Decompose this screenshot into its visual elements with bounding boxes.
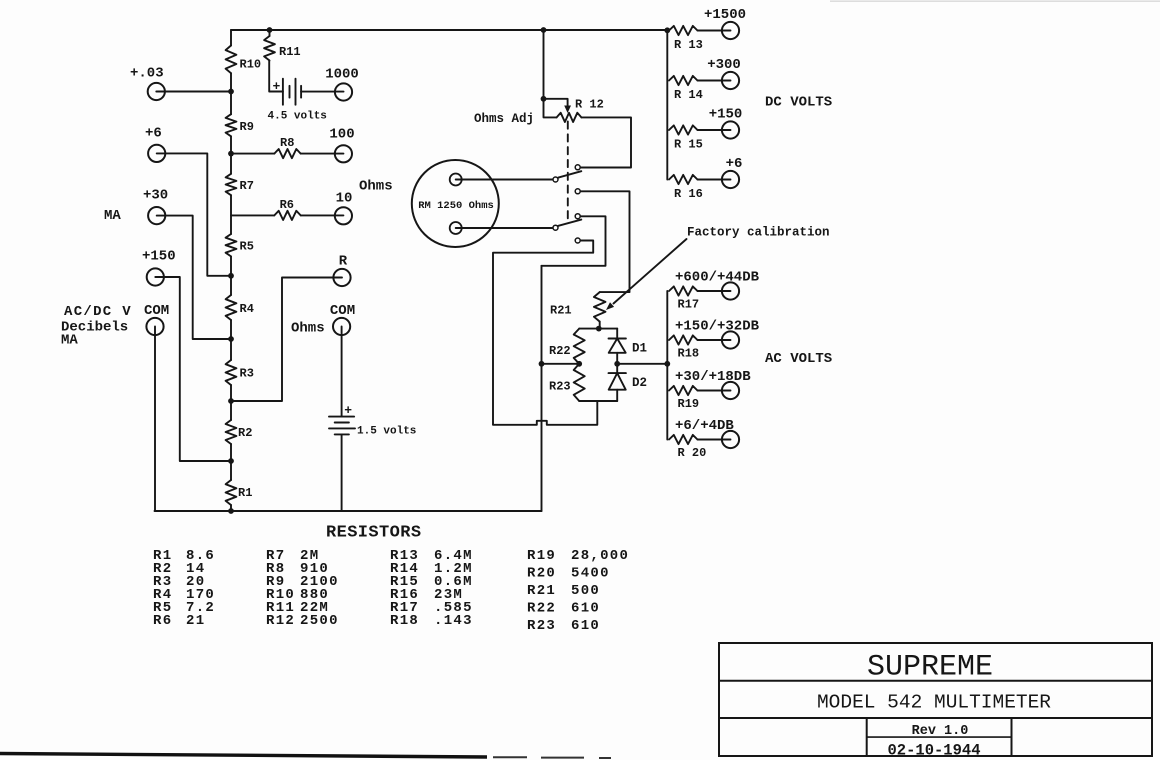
svg-text:R23: R23 — [549, 380, 571, 394]
wire battery to 1000 terminal — [301, 91, 343, 93]
svg-text:D1: D1 — [632, 342, 647, 356]
wire top of bridge — [579, 328, 617, 330]
switch pole 1 — [553, 177, 558, 182]
diode D1 — [616, 329, 618, 339]
wire R8 to 100 terminal — [301, 153, 344, 155]
wire R18 to terminal — [698, 339, 731, 341]
svg-text:Ohms: Ohms — [359, 179, 393, 195]
svg-text:MA: MA — [104, 208, 121, 224]
terminal +300 DC — [722, 72, 739, 89]
terminal +30/+18DB — [722, 382, 739, 399]
wire R11 top — [269, 30, 271, 36]
resistor R3 — [226, 360, 237, 385]
wire hop over riser — [493, 401, 597, 425]
wire AC bus — [666, 291, 668, 440]
terminal 10 — [335, 207, 352, 224]
terminal COM — [146, 318, 163, 335]
wire chain seg9 — [230, 505, 232, 511]
switch contact 3 — [575, 214, 580, 219]
svg-text:Factory calibration: Factory calibration — [687, 226, 830, 240]
terminal 1000 — [335, 83, 352, 100]
svg-text:R 20: R 20 — [678, 446, 707, 460]
terminal 100 — [335, 145, 352, 162]
resistor R13 — [669, 26, 698, 35]
wire chain seg3 — [230, 136, 232, 174]
svg-text:AC VOLTS: AC VOLTS — [765, 351, 832, 367]
junction DC bus top — [664, 27, 670, 33]
svg-text:+600/+44DB: +600/+44DB — [675, 270, 760, 286]
wire chain seg6 — [230, 320, 232, 360]
wire R 16 to terminal — [698, 179, 731, 181]
meter RM 1250 Ohms — [412, 160, 499, 247]
svg-text:1000: 1000 — [325, 67, 359, 83]
wire top bus — [231, 29, 667, 31]
potentiometer R12 — [557, 113, 582, 122]
wire DC bus — [666, 30, 668, 180]
svg-text:R: R — [339, 254, 348, 270]
resistor R17 — [669, 286, 698, 295]
svg-text:R 16: R 16 — [674, 187, 703, 201]
switch contact 2 — [575, 189, 580, 194]
svg-text:610: 610 — [571, 600, 600, 616]
diode D2 — [616, 364, 618, 374]
junction AC bus — [664, 361, 670, 367]
svg-text:R22: R22 — [549, 344, 571, 358]
svg-text:+6: +6 — [726, 156, 743, 172]
svg-text:+30/+18DB: +30/+18DB — [675, 369, 751, 385]
wire contact 4 down — [493, 241, 593, 425]
svg-text:R2: R2 — [238, 426, 252, 440]
terminal +6 DC — [722, 171, 739, 188]
svg-text:R 14: R 14 — [674, 88, 703, 102]
wire +150 to chain — [155, 277, 231, 461]
svg-text:500: 500 — [571, 583, 600, 599]
svg-text:5400: 5400 — [571, 565, 610, 581]
svg-text:R4: R4 — [240, 302, 254, 316]
terminal +150/+32DB — [722, 331, 739, 348]
svg-text:+30: +30 — [143, 188, 168, 204]
svg-text:R1: R1 — [238, 486, 252, 500]
svg-text:RESISTORS: RESISTORS — [326, 524, 421, 543]
terminal +600/+44DB — [722, 282, 739, 299]
junction R22 R23 — [576, 361, 582, 367]
wire meter + to switch pole 1 — [456, 179, 553, 181]
terminal COM ohms — [333, 318, 350, 335]
wire COM to bottom bus — [154, 327, 156, 512]
svg-text:R17: R17 — [678, 298, 700, 312]
svg-text:610: 610 — [571, 618, 600, 634]
svg-text:+300: +300 — [707, 57, 741, 73]
switch contact 1 — [575, 165, 580, 170]
svg-text:MA: MA — [61, 333, 78, 349]
svg-text:R20: R20 — [527, 565, 556, 581]
svg-text:28,000: 28,000 — [571, 548, 629, 564]
svg-text:100: 100 — [329, 127, 354, 143]
wire R21 bottom — [599, 322, 601, 329]
battery BT1 4.5 volts — [282, 79, 284, 105]
svg-text:R9: R9 — [240, 120, 254, 134]
svg-text:+.03: +.03 — [130, 66, 164, 82]
wire R 14 to terminal — [698, 80, 731, 82]
svg-text:R11: R11 — [279, 45, 301, 59]
wire R 15 to terminal — [698, 129, 731, 131]
svg-text:R3: R3 — [240, 367, 254, 381]
svg-text:02-10-1944: 02-10-1944 — [887, 742, 980, 760]
svg-text:D2: D2 — [632, 376, 647, 390]
title block — [719, 643, 1152, 756]
wire R12 to switch contact 1 — [581, 117, 631, 167]
svg-text:R6: R6 — [280, 198, 294, 212]
scan edge bottom bar — [0, 754, 487, 758]
junction +150 wire — [228, 458, 234, 464]
wire bottom bus — [155, 510, 542, 512]
resistor R8 — [274, 149, 300, 158]
svg-text:10: 10 — [336, 191, 353, 207]
svg-text:21: 21 — [186, 613, 205, 629]
resistor R22 — [574, 329, 585, 364]
svg-text:R8: R8 — [280, 136, 294, 150]
wire battery to bottom bus — [341, 434, 343, 511]
svg-text:R21: R21 — [550, 304, 572, 318]
junction ohms adj top — [541, 27, 547, 33]
battery BT2 1.5 volts — [329, 416, 354, 418]
resistor R18 — [669, 335, 698, 344]
wire R11 to battery — [269, 61, 283, 92]
svg-text:R6: R6 — [153, 613, 172, 629]
svg-text:AC/DC V: AC/DC V — [64, 304, 132, 320]
terminal +.03 — [148, 83, 165, 100]
svg-text:R5: R5 — [240, 240, 254, 254]
wire R19 to terminal — [698, 390, 731, 392]
svg-text:R21: R21 — [527, 583, 556, 599]
wire chain to R6 — [231, 214, 274, 216]
terminal +150 DC — [722, 121, 739, 138]
resistor R4 — [226, 295, 237, 320]
wire bridge mid row right — [617, 363, 667, 365]
junction riser mid — [539, 361, 545, 367]
scan edge top — [830, 0, 1160, 2]
switch contact 4 — [575, 238, 580, 243]
resistor R20 — [669, 435, 698, 444]
svg-text:R 15: R 15 — [674, 138, 703, 152]
resistor R7 — [226, 174, 237, 195]
wire R12 wiper — [544, 99, 568, 107]
wire chain seg7 — [230, 385, 232, 420]
meter terminal - — [450, 222, 462, 234]
svg-text:R22: R22 — [527, 600, 556, 616]
resistor R14 — [669, 76, 698, 85]
svg-text:COM: COM — [144, 303, 169, 319]
resistor R1 — [226, 480, 237, 505]
wire right riser — [541, 266, 543, 511]
svg-text:R19: R19 — [678, 397, 700, 411]
svg-text:COM: COM — [330, 303, 355, 319]
svg-text:Rev 1.0: Rev 1.0 — [912, 724, 969, 739]
svg-text:4.5 volts: 4.5 volts — [268, 111, 327, 123]
resistor R19 — [669, 386, 698, 395]
resistor R6 — [274, 211, 300, 220]
junction +6 wire — [228, 273, 234, 279]
svg-text:+150: +150 — [142, 249, 176, 265]
svg-text:SUPREME: SUPREME — [867, 651, 993, 685]
resistor R9 — [226, 114, 237, 136]
svg-text:Ohms: Ohms — [291, 321, 325, 337]
junction D1 D2 — [614, 361, 620, 367]
terminal +1500 DC — [722, 22, 739, 39]
svg-text:R10: R10 — [240, 58, 262, 72]
svg-text:1.5 volts: 1.5 volts — [357, 426, 416, 438]
junction R11 top — [267, 27, 273, 33]
switch S1 blade upper — [558, 171, 581, 177]
potentiometer R21 — [594, 292, 606, 322]
resistor R5 — [226, 234, 237, 256]
svg-text:.143: .143 — [434, 613, 473, 629]
junction R21 bottom — [596, 326, 602, 332]
resistor R16 — [669, 175, 698, 184]
svg-text:Ohms Adj: Ohms Adj — [474, 112, 534, 126]
leader factory calibration — [614, 239, 687, 304]
junction +.03 — [228, 89, 234, 95]
wire +6 to chain — [157, 153, 231, 275]
resistor R23 — [574, 364, 585, 401]
wire chain seg8 — [230, 444, 232, 480]
terminal +150 — [147, 268, 164, 285]
wire contact 2 to R21 top — [581, 191, 630, 292]
switch S1 blade lower — [558, 220, 581, 226]
wire contact 3 to riser — [542, 216, 606, 265]
svg-text:+6: +6 — [145, 126, 162, 142]
wire +30 to chain — [157, 216, 231, 339]
svg-text:+: + — [344, 403, 352, 418]
svg-text:R7: R7 — [240, 179, 254, 193]
svg-text:R 12: R 12 — [575, 98, 604, 112]
junction +30 wire — [228, 336, 234, 342]
wire R6 to 10 terminal — [301, 214, 344, 216]
junction chain bottom — [228, 508, 234, 514]
wire +.03 to chain — [156, 91, 231, 93]
svg-text:+6/+4DB: +6/+4DB — [675, 418, 734, 434]
switch pole 2 — [553, 225, 558, 230]
dashed link ohms adj shaft — [567, 122, 569, 222]
resistor R2 — [226, 420, 237, 444]
svg-text:DC VOLTS: DC VOLTS — [765, 95, 832, 111]
wire R 13 to terminal — [698, 30, 731, 32]
wire down to R12 — [543, 30, 545, 99]
svg-text:R19: R19 — [527, 548, 556, 564]
wire chain seg5 — [230, 256, 232, 295]
wire R terminal to chain — [231, 278, 342, 402]
svg-text:2500: 2500 — [300, 613, 339, 629]
svg-text:R18: R18 — [390, 613, 419, 629]
resistor R10 — [226, 46, 237, 74]
wire chain seg1 — [230, 30, 232, 46]
meter terminal + — [450, 174, 462, 186]
terminal +30 — [148, 207, 165, 224]
wire chain seg4 — [230, 195, 232, 234]
svg-text:+150/+32DB: +150/+32DB — [675, 319, 760, 335]
wire meter - to switch pole 2 — [456, 227, 553, 229]
junction R12 wiper tie — [541, 96, 547, 102]
svg-text:R18: R18 — [678, 347, 700, 361]
svg-text:RM 1250 Ohms: RM 1250 Ohms — [418, 200, 494, 212]
svg-text:+150: +150 — [709, 107, 743, 123]
wire chain to R8 — [231, 153, 274, 155]
wire to R12 left — [544, 99, 557, 118]
wire bottom of bridge — [579, 400, 617, 402]
svg-text:MODEL 542 MULTIMETER: MODEL 542 MULTIMETER — [817, 692, 1051, 714]
wire bridge mid row left — [542, 363, 580, 365]
wire chain seg2 — [230, 73, 232, 114]
resistor R15 — [669, 125, 698, 134]
arrow R12 wiper — [564, 106, 571, 114]
wire R17 to terminal — [698, 290, 731, 292]
svg-text:+1500: +1500 — [704, 7, 746, 23]
wire R 20 to terminal — [698, 439, 731, 441]
terminal +6 — [148, 145, 165, 162]
svg-text:R 13: R 13 — [674, 38, 703, 52]
junction R wire — [228, 398, 234, 404]
resistor R11 — [264, 36, 275, 61]
svg-text:+: + — [273, 79, 281, 94]
junction R8 — [228, 151, 234, 157]
svg-text:R12: R12 — [266, 613, 295, 629]
svg-text:R23: R23 — [527, 618, 556, 634]
terminal +6/+4DB — [722, 431, 739, 448]
wire COM ohms to battery — [341, 327, 343, 417]
terminal R — [333, 269, 350, 286]
